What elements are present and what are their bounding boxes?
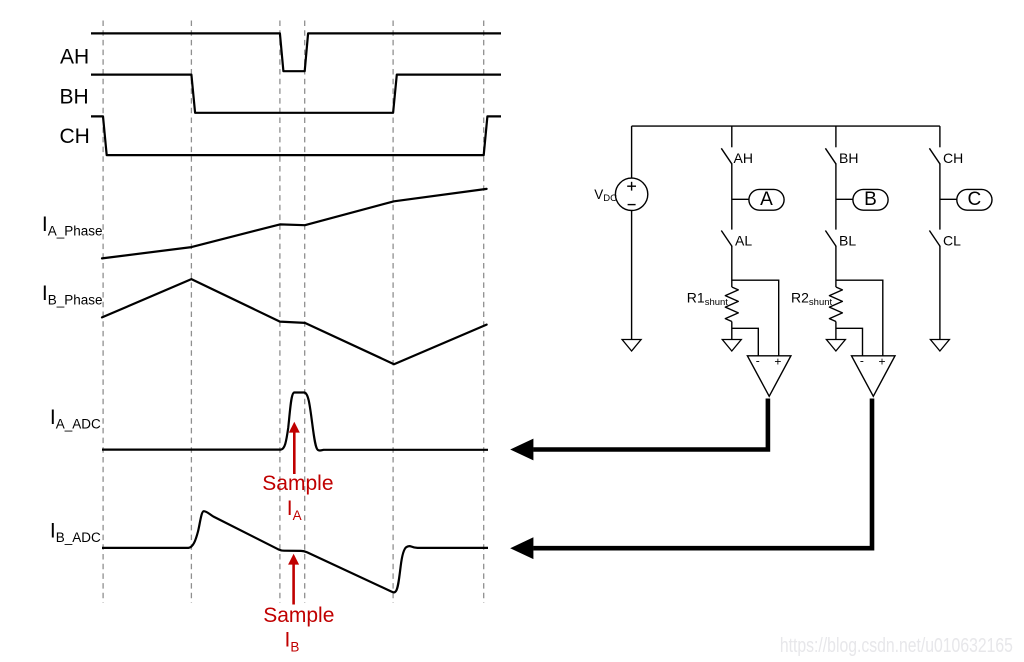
svg-text:C: C [968, 189, 982, 210]
wire leg A mid [731, 164, 733, 230]
waveform CH [91, 116, 501, 155]
svg-text:Sample: Sample [263, 604, 334, 627]
wire R2 bottom [835, 322, 837, 340]
ground R2 [826, 340, 845, 352]
svg-text:BH: BH [839, 150, 858, 166]
gridline t1 [102, 21, 104, 604]
wire tap R1 top to op-amp plus [732, 280, 779, 356]
gridline t6 [483, 21, 485, 604]
svg-text:-: - [756, 354, 760, 368]
sample arrow IB [288, 554, 299, 605]
wire leg A lower [731, 246, 733, 287]
svg-text:AH: AH [734, 150, 753, 166]
waveform BH [91, 75, 501, 113]
node A [749, 189, 784, 210]
op-amp U2 [852, 354, 896, 397]
resistor R2 [829, 287, 842, 322]
switch AH [721, 148, 732, 164]
wire leg A upper [731, 126, 733, 147]
wire leg B upper [835, 126, 837, 147]
svg-text:AL: AL [735, 232, 752, 248]
waveform IB_Phase [102, 279, 487, 364]
sample label IA [262, 472, 333, 523]
svg-text:A: A [760, 189, 773, 210]
svg-text:+: + [878, 355, 885, 369]
thick arrow U1 output to IA_ADC [510, 399, 768, 461]
sample arrow IA [289, 422, 300, 474]
svg-text:https://blog.csdn.net/u0106321: https://blog.csdn.net/u010632165 [780, 635, 1013, 657]
svg-text:CL: CL [943, 232, 961, 248]
svg-text:CH: CH [60, 125, 90, 148]
gridline t2 [190, 21, 192, 604]
voltage source VDC [615, 126, 647, 339]
svg-text:-: - [860, 354, 864, 368]
gridline t4 [304, 21, 306, 604]
wire node A tap [732, 198, 749, 200]
wire DC bus [632, 125, 940, 127]
ground VDC [622, 340, 641, 352]
op-amp U1 [747, 354, 791, 397]
gridline t5 [392, 21, 394, 604]
svg-text:BL: BL [839, 232, 856, 248]
switch CL [929, 231, 940, 247]
svg-text:+: + [774, 355, 781, 369]
waveform IB_ADC [102, 511, 488, 592]
switch BL [825, 231, 836, 247]
wire leg C upper [939, 126, 941, 147]
svg-text:BH: BH [60, 86, 89, 109]
waveform AH [91, 33, 501, 71]
svg-text:CH: CH [943, 150, 963, 166]
ground leg C [930, 340, 949, 352]
svg-text:Sample: Sample [262, 472, 333, 495]
wire leg B mid [835, 164, 837, 230]
ground R1 [722, 340, 741, 352]
wire tap R2 bottom to op-amp minus [836, 328, 863, 356]
wire leg C mid [939, 164, 941, 230]
wire leg B lower [835, 246, 837, 287]
gridline t3 [279, 21, 281, 604]
wire R1 bottom [731, 322, 733, 340]
switch BH [825, 148, 836, 164]
resistor R1 [725, 287, 738, 322]
waveform IA_ADC [102, 393, 488, 451]
wire tap R1 bottom to op-amp minus [732, 328, 759, 356]
waveform IA_Phase [102, 189, 487, 259]
switch CH [929, 148, 940, 164]
switch AL [721, 231, 732, 247]
wire node B tap [836, 198, 853, 200]
svg-text:B: B [864, 189, 877, 210]
wire node C tap [940, 198, 957, 200]
node B [853, 189, 888, 210]
wire leg C lower [939, 246, 941, 340]
sample label IB [263, 604, 334, 655]
thick arrow U2 output to IB_ADC [510, 399, 872, 560]
wire tap R2 top to op-amp plus [836, 280, 883, 356]
svg-text:AH: AH [60, 45, 89, 68]
node C [957, 189, 992, 210]
